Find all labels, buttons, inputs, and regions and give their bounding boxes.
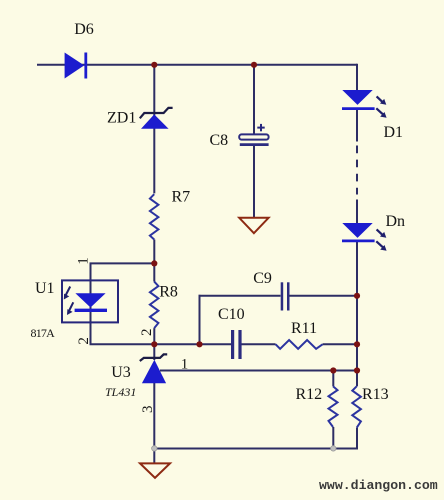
svg-text:C10: C10	[218, 306, 245, 323]
junction node (R11 / right rail)	[354, 341, 360, 347]
wire: bottom return rail	[154, 448, 357, 450]
svg-text:C9: C9	[253, 270, 272, 287]
junction node (top rail / C8)	[251, 62, 257, 68]
svg-text:R12: R12	[296, 386, 323, 403]
wire: C9 left lead	[199, 295, 281, 297]
junction node (U1 pin1 / R7-R8)	[151, 260, 157, 266]
wire: C10 to R11	[242, 343, 276, 345]
wire: x=154 between R7 and R8	[153, 240, 155, 282]
U1 emission arrow 2	[69, 302, 73, 310]
wire: C9 branch riser	[199, 295, 201, 345]
svg-text:R7: R7	[172, 189, 191, 206]
capacitor C8	[239, 134, 268, 139]
wire: x=154 between R8 and U3	[153, 328, 155, 360]
svg-text:2: 2	[139, 329, 155, 337]
wire: R12 top lead	[332, 371, 334, 387]
wire: right vertical top corner to D1	[356, 65, 357, 90]
optocoupler U1 LED	[75, 293, 105, 307]
wire: top horizontal rail	[37, 64, 357, 66]
svg-text:R13: R13	[362, 386, 389, 403]
capacitor C10	[231, 330, 234, 359]
wire: above Dn	[356, 200, 358, 224]
wire: R13 bottom	[356, 428, 358, 450]
junction node (C9 / right rail)	[354, 293, 360, 299]
svg-text:D6: D6	[74, 21, 94, 38]
wire: U3 reference pin to right rail	[160, 370, 357, 372]
wire: C8 to ground	[253, 146, 255, 218]
svg-text:Dn: Dn	[386, 213, 406, 230]
LED D1	[342, 90, 372, 105]
svg-text:R11: R11	[291, 320, 317, 337]
junction node (R8 bottom / U3 cathode)	[151, 341, 157, 347]
wire: left vertical x=154 (segment above R7)	[153, 65, 155, 194]
svg-text:ZD1: ZD1	[107, 109, 136, 126]
svg-text:3: 3	[140, 406, 156, 414]
svg-text:TL431: TL431	[105, 385, 136, 399]
wire: C9 right lead	[290, 295, 358, 297]
wire: D1 cathode down	[356, 110, 358, 142]
svg-text:R8: R8	[159, 283, 178, 300]
U1 emission arrow 1	[66, 287, 70, 296]
wire: Dn cathode down through junctions to R13	[356, 242, 358, 387]
junction node (top rail / ZD1)	[151, 62, 157, 68]
junction node (R13 top / right rail)	[354, 367, 360, 373]
svg-text:U1: U1	[35, 280, 55, 297]
gray node (U3 anode / bottom rail)	[152, 446, 157, 451]
resistor R7	[150, 194, 159, 239]
wire: dashed segment between D1 and Dn	[356, 146, 358, 195]
resistor R13	[352, 386, 361, 427]
wire: R11 to right rail	[323, 343, 357, 345]
wire: U1 pin1 to R8 junction	[91, 263, 155, 280]
svg-text:U3: U3	[111, 364, 131, 381]
junction node (C9 branch tap)	[196, 341, 202, 347]
svg-text:www.diangon.com: www.diangon.com	[319, 478, 438, 493]
capacitor C9	[281, 282, 284, 310]
svg-text:2: 2	[76, 337, 92, 345]
LED Dn	[342, 223, 372, 238]
svg-text:817A: 817A	[31, 326, 56, 340]
junction node (R12 top)	[330, 367, 336, 373]
shunt regulator U3 (TL431)	[140, 354, 167, 361]
ground (C8)	[239, 218, 268, 233]
svg-text:1: 1	[75, 257, 91, 265]
resistor R8	[150, 282, 159, 329]
wire: C8 branch vertical upper	[253, 65, 255, 135]
svg-text:D1: D1	[384, 124, 404, 141]
zener ZD1	[140, 108, 173, 118]
wire: U1 pin2 down and right	[91, 322, 232, 344]
wire: U1 internal vertical	[90, 280, 92, 322]
wire: R12 bottom lead	[332, 427, 334, 449]
ground (main)	[140, 463, 170, 478]
svg-text:C8: C8	[210, 132, 229, 149]
wire: x=154 U3 anode to ground	[153, 383, 155, 463]
svg-text:1: 1	[181, 357, 189, 373]
gray node (R12 bottom)	[331, 446, 336, 451]
resistor R11	[276, 340, 323, 349]
optocoupler U1 box	[62, 280, 118, 322]
resistor R12	[329, 386, 338, 427]
diode D6	[65, 53, 85, 79]
